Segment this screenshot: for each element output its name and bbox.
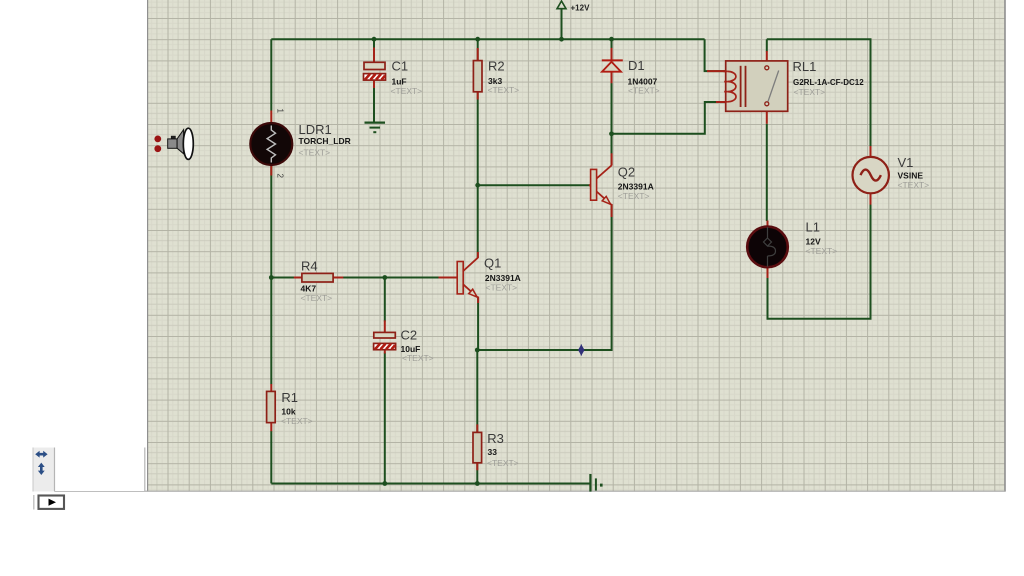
wire D1 column bbox=[611, 39, 613, 134]
wire C1 column bbox=[373, 39, 375, 122]
lead LDR bbox=[270, 111, 272, 176]
svg-text:<TEXT>: <TEXT> bbox=[794, 87, 826, 97]
wire relay coil feed bbox=[705, 39, 726, 71]
svg-text:<TEXT>: <TEXT> bbox=[402, 353, 434, 363]
lead R1 pins bbox=[270, 384, 272, 431]
svg-text:<TEXT>: <TEXT> bbox=[391, 86, 423, 96]
wire C2 column bbox=[384, 278, 386, 484]
svg-text:<TEXT>: <TEXT> bbox=[806, 246, 838, 256]
svg-text:<TEXT>: <TEXT> bbox=[628, 86, 660, 96]
wire relay switch top to V1 bbox=[767, 39, 871, 156]
lead Q1 emitter bbox=[477, 297, 479, 304]
wire power stub bbox=[561, 9, 563, 40]
wire L1 bottom to V1 bottom bbox=[768, 195, 871, 319]
svg-text:R3: R3 bbox=[487, 431, 504, 446]
wire top bus bbox=[271, 38, 704, 40]
lead Q1 collector bbox=[477, 252, 479, 258]
capacitor C2 bbox=[374, 332, 396, 349]
LDR LDR1 bbox=[250, 123, 292, 165]
ground (bottom rail, rotated) bbox=[590, 474, 601, 492]
svg-text:<TEXT>: <TEXT> bbox=[488, 85, 520, 95]
diode D1 bbox=[602, 60, 623, 71]
wire coil bottom to D1 junction bbox=[612, 102, 717, 134]
junction D1/top bus bbox=[609, 37, 614, 42]
svg-text:V1: V1 bbox=[898, 155, 914, 170]
transistor Q1 bbox=[457, 258, 478, 298]
V1 VSINE source bbox=[853, 157, 889, 193]
pane bottom border bbox=[54, 490, 1005, 492]
svg-text:Q2: Q2 bbox=[618, 165, 635, 180]
lead C1 bottom bbox=[373, 80, 375, 88]
lead Q1 base bbox=[439, 277, 458, 279]
wire relay switch bottom to L1 bbox=[766, 124, 768, 221]
resistor R4 bbox=[302, 273, 333, 282]
pane right border bbox=[1004, 0, 1006, 492]
svg-text:RL1: RL1 bbox=[793, 59, 817, 74]
play button bbox=[33, 495, 35, 510]
svg-text:L1: L1 bbox=[806, 220, 820, 235]
svg-text:Q1: Q1 bbox=[484, 255, 501, 270]
capacitor C1 bbox=[364, 62, 386, 80]
junction R4/C2 bbox=[382, 275, 387, 280]
relay RL1 bbox=[724, 61, 788, 111]
svg-text:<TEXT>: <TEXT> bbox=[898, 180, 930, 190]
pan icon vertical arrows bbox=[38, 463, 45, 475]
svg-text:10k: 10k bbox=[281, 407, 295, 417]
svg-text:TORCH_LDR: TORCH_LDR bbox=[299, 136, 351, 146]
svg-text:D1: D1 bbox=[628, 58, 645, 73]
lead C1 bbox=[373, 48, 375, 63]
horizontal scrollbar track bbox=[55, 448, 146, 492]
resistor R2 bbox=[473, 61, 482, 92]
junction D1/Q2 collector/relay coil bbox=[609, 131, 614, 136]
junction R3/bottom rail bbox=[475, 481, 480, 486]
wire R4 row bbox=[271, 277, 440, 279]
wire R2 to Q2-base junction to Q1 collector bbox=[477, 92, 479, 258]
svg-text:C1: C1 bbox=[392, 59, 409, 74]
origin marker (blue) bbox=[579, 344, 585, 355]
pane left border bbox=[147, 0, 149, 492]
svg-text:4K7: 4K7 bbox=[301, 283, 317, 293]
pan icon horizontal arrows bbox=[35, 451, 47, 458]
svg-text:C2: C2 bbox=[401, 327, 418, 342]
lead relay coil pins bbox=[707, 71, 727, 102]
lead L1 pins bbox=[767, 221, 769, 279]
wire LDR column bottom to R4 row to R1 to bottom rail bbox=[270, 165, 272, 483]
lead R2 bbox=[477, 48, 479, 100]
wire bottom rail bbox=[271, 483, 590, 485]
svg-text:<TEXT>: <TEXT> bbox=[486, 282, 518, 292]
wire R2 column top bbox=[477, 39, 479, 60]
junction C1/top bus bbox=[372, 37, 377, 42]
svg-text:LDR1: LDR1 bbox=[299, 122, 332, 137]
bottom-left toolbar panel bbox=[33, 448, 55, 492]
svg-text:<TEXT>: <TEXT> bbox=[281, 416, 313, 426]
wire D1 junction to Q2 collector bbox=[611, 134, 613, 165]
lead R3 pins bbox=[476, 424, 478, 470]
lead Q2 base bbox=[589, 184, 591, 186]
junction +12V/top bus bbox=[559, 37, 564, 42]
lead C2 pins bbox=[384, 320, 386, 353]
svg-text:R4: R4 bbox=[301, 259, 318, 274]
lead relay switch pins bbox=[766, 51, 768, 124]
svg-text:R1: R1 bbox=[281, 390, 298, 405]
svg-text:<TEXT>: <TEXT> bbox=[299, 147, 331, 157]
lamp L1 bbox=[747, 227, 788, 268]
svg-text:33: 33 bbox=[488, 447, 498, 457]
lead D1 bbox=[611, 48, 613, 83]
lead Q2 emitter bbox=[611, 204, 613, 217]
lead Q2 collector bbox=[611, 153, 613, 165]
junction C2/bottom rail bbox=[382, 481, 387, 486]
svg-text:<TEXT>: <TEXT> bbox=[618, 191, 650, 201]
ground (C1) bbox=[365, 123, 386, 133]
junction R2/Q2 base bbox=[475, 183, 480, 188]
resistor R1 bbox=[267, 391, 276, 422]
wire LDR column top bbox=[270, 39, 272, 110]
svg-text:<TEXT>: <TEXT> bbox=[487, 458, 519, 468]
svg-text:R2: R2 bbox=[488, 58, 505, 73]
power symbol +12V bbox=[557, 1, 590, 13]
torch icon bbox=[154, 128, 193, 159]
schematic grid pane bbox=[148, 0, 1005, 492]
lead R4 pins bbox=[294, 277, 344, 279]
svg-text:<TEXT>: <TEXT> bbox=[301, 293, 333, 303]
wire R3 column bbox=[476, 350, 478, 484]
svg-text:+12V: +12V bbox=[571, 4, 591, 13]
resistor R3 bbox=[473, 432, 482, 462]
wire Q1 emitter column to row to Q2 emitter bbox=[478, 205, 611, 350]
svg-text:1: 1 bbox=[276, 109, 285, 114]
lead V1 pins bbox=[870, 146, 872, 205]
junction R2/top bus bbox=[475, 37, 480, 42]
svg-text:2: 2 bbox=[276, 174, 285, 179]
svg-text:G2RL-1A-CF-DC12: G2RL-1A-CF-DC12 bbox=[793, 78, 864, 87]
svg-text:1uF: 1uF bbox=[392, 77, 407, 87]
junction LDR1/R4 bbox=[269, 275, 274, 280]
wire Q2 base row bbox=[478, 184, 591, 186]
transistor Q2 bbox=[591, 165, 612, 205]
junction Q1 emitter/R3 bbox=[475, 348, 480, 353]
